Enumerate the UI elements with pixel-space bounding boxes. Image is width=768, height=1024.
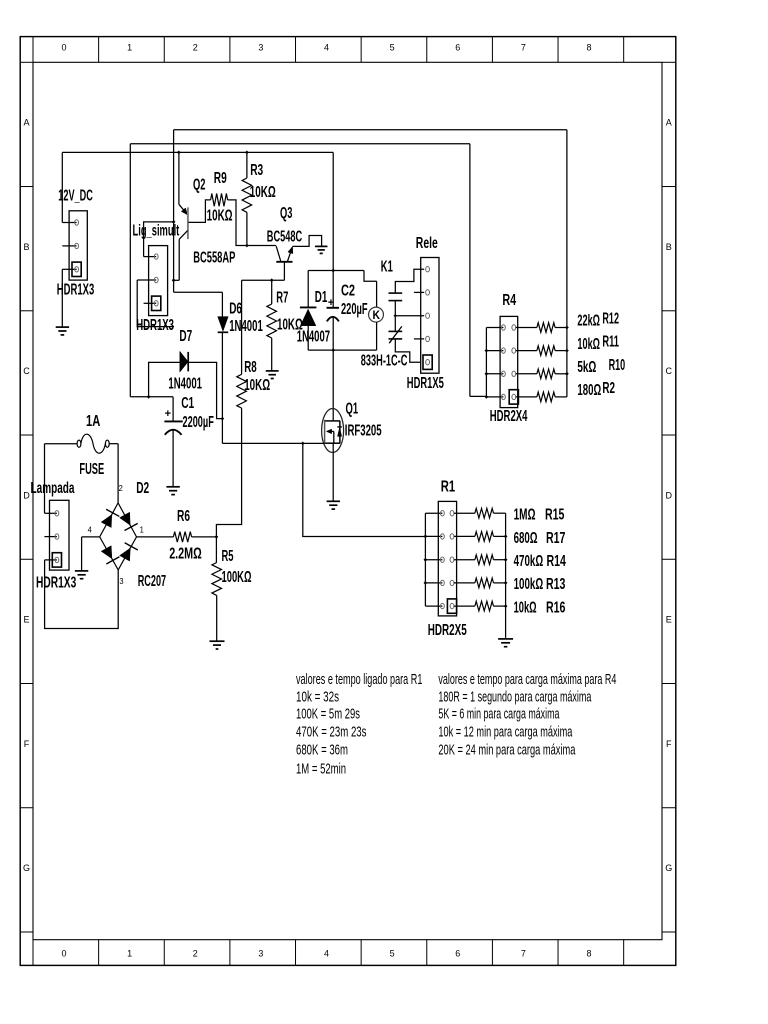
svg-text:833H-1C-C: 833H-1C-C	[361, 352, 408, 369]
svg-text:470kΩ: 470kΩ	[514, 553, 544, 570]
bridge diode bottom-right	[120, 548, 131, 561]
junction net-A / Lig pin1	[172, 220, 176, 224]
junction R4 left bus	[485, 395, 489, 399]
Q2 emitter diagonal	[179, 204, 188, 215]
Q1 substrate arrow	[326, 429, 331, 434]
resistor R13 zigzag	[475, 578, 494, 588]
D1 cathode lead	[307, 271, 309, 308]
svg-text:7: 7	[521, 949, 526, 959]
svg-text:Lig_simult: Lig_simult	[133, 223, 180, 240]
Q1 channel right bar	[339, 421, 341, 443]
svg-text:1MΩ: 1MΩ	[514, 507, 536, 524]
Q1 source lead to ground	[332, 443, 334, 501]
wire down to bridge pin2	[117, 444, 119, 503]
svg-text:BC558AP: BC558AP	[193, 249, 235, 266]
pin2 stub	[414, 291, 424, 293]
pin left row1 of HDR2X4	[502, 325, 506, 330]
svg-text:1: 1	[127, 43, 132, 53]
R7 zigzag	[267, 304, 277, 338]
svg-text:RC207: RC207	[138, 573, 166, 590]
pin 1 of Lig_simult	[154, 254, 158, 259]
svg-text:B: B	[23, 242, 29, 252]
resistor R15 to right bus	[494, 512, 506, 514]
svg-text:HDR2X4: HDR2X4	[490, 408, 528, 425]
pin stub Lamp-3	[45, 559, 57, 561]
page border frame inner	[33, 62, 662, 939]
junction R3 / base wire	[245, 244, 249, 248]
svg-text:HDR1X3: HDR1X3	[136, 317, 174, 334]
Q1 gate plate	[324, 420, 326, 443]
R1 row3 left stub	[425, 559, 442, 561]
svg-text:R11: R11	[602, 334, 619, 351]
contact1 lower bar	[389, 300, 403, 302]
junction R6/R5/R8 node	[215, 535, 219, 539]
svg-text:8: 8	[587, 949, 592, 959]
R1 row4 lead to resistor	[454, 582, 475, 584]
junction D7 / D6 cathode line	[221, 417, 225, 421]
resistor R2 zigzag	[537, 392, 555, 402]
C2 bottom curved plate	[327, 317, 339, 322]
Q3 emitter arrow (NPN)	[288, 247, 293, 254]
contact1 upper bar	[389, 292, 403, 294]
pin 3 of HDR1X5	[426, 313, 430, 318]
K1 coil top lead	[376, 281, 378, 307]
resistor R10 to right bus	[555, 373, 567, 375]
svg-text:A: A	[666, 118, 672, 128]
svg-text:5: 5	[390, 43, 395, 53]
svg-text:10kΩ: 10kΩ	[514, 599, 537, 616]
R1 left bus	[424, 513, 426, 606]
pin left row2 of HDR2X4	[502, 348, 506, 353]
R4 left bus	[485, 328, 487, 397]
svg-text:BC548C: BC548C	[267, 229, 302, 246]
ground at Q3 emitter	[315, 245, 328, 247]
wire net-A top bus y=129.7	[174, 129, 567, 131]
svg-text:R15: R15	[545, 507, 565, 524]
pin left row2 of HDR2X5	[441, 534, 445, 539]
R4 row4 lead to resistor	[516, 396, 537, 398]
svg-text:B: B	[666, 242, 672, 252]
contact mid wire to pin3	[395, 315, 424, 317]
R9 zigzag	[211, 194, 228, 207]
D7 cathode wire jog to D6 line	[188, 362, 222, 418]
junction R1 left bus	[424, 558, 428, 562]
ground below R7	[266, 370, 279, 372]
resistor R17 zigzag	[475, 532, 494, 542]
bridge diamond	[100, 503, 137, 570]
R8 zigzag	[237, 374, 247, 408]
resistor R14 to right bus	[494, 559, 506, 561]
R4 row3 lead to resistor	[516, 373, 537, 375]
Q2 base wire to R9	[188, 200, 210, 223]
R4 row3 left stub	[486, 373, 503, 375]
pin 3 square of Lampada	[52, 553, 61, 567]
Q2 base bar	[187, 207, 189, 239]
wire +12V to J1 pin1	[61, 152, 63, 222]
wire fuse-left down to Lampada pin1	[44, 444, 46, 514]
svg-text:C: C	[23, 366, 30, 376]
svg-text:R12: R12	[602, 310, 619, 327]
fuse wave	[81, 434, 106, 453]
svg-text:D2: D2	[136, 480, 149, 497]
pin right row1 of HDR2X4	[512, 325, 516, 330]
svg-text:7: 7	[521, 43, 526, 53]
junction R1 left bus	[424, 581, 428, 585]
R1 row1 left stub	[425, 512, 442, 514]
wire net +12V bus y=152.4	[62, 151, 333, 153]
R5 top lead	[215, 537, 217, 563]
resistor R15 zigzag	[475, 508, 494, 518]
svg-text:180R = 1 segundo para carga má: 180R = 1 segundo para carga máxima	[438, 689, 592, 705]
svg-text:0: 0	[61, 43, 66, 53]
pin stub J1-1	[62, 222, 76, 224]
box top edge	[308, 270, 364, 272]
svg-text:680K = 36m: 680K = 36m	[296, 742, 348, 758]
svg-text:D: D	[666, 490, 673, 500]
R3 top lead	[246, 152, 248, 178]
wire net-B second bus y=143.8	[130, 143, 470, 145]
pin stub Lamp-2	[44, 536, 57, 538]
svg-text:R13: R13	[546, 576, 566, 593]
bridge diode top-left (points to +)	[101, 515, 112, 528]
svg-text:R9: R9	[214, 170, 227, 187]
svg-text:K1: K1	[381, 259, 393, 276]
Q2 emitter riser	[178, 152, 180, 204]
contact2 actuation slash	[389, 326, 402, 343]
svg-text:D: D	[23, 490, 30, 500]
svg-text:R3: R3	[250, 162, 263, 179]
junction R4 left bus	[485, 349, 489, 353]
wire Lig pin2 down (overlaps label)	[137, 280, 174, 327]
pin 4 of HDR1X5	[426, 336, 430, 341]
Q1 substrate to source	[333, 431, 335, 443]
resistor R12 zigzag	[537, 323, 555, 333]
pin left row3 of HDR2X5	[441, 557, 445, 562]
pin right row4 of HDR2X4	[512, 394, 516, 399]
wire gate net y=443.4	[222, 442, 324, 444]
svg-text:R6: R6	[177, 508, 190, 525]
svg-text:100KΩ: 100KΩ	[222, 569, 252, 586]
svg-text:220µF: 220µF	[341, 301, 368, 318]
svg-text:F: F	[24, 739, 30, 749]
wire net-B into R4 left bus	[470, 395, 487, 397]
R6 zigzag	[173, 532, 191, 542]
resistor R14 zigzag	[475, 555, 494, 565]
D7 cathode bar	[187, 352, 189, 372]
R4 row1 left stub	[486, 327, 503, 329]
pin stub Lig-2	[137, 279, 156, 281]
connector 12V_DC HDR1X3	[69, 211, 87, 280]
junction contact mid	[394, 314, 398, 318]
wire fuse right	[109, 443, 118, 445]
svg-text:HDR2X5: HDR2X5	[428, 622, 467, 639]
pin stub Lamp-1	[45, 512, 57, 514]
C1 top plate	[164, 420, 182, 422]
ruler column dividers bottom band	[32, 940, 34, 966]
wire net-A right drop = R4 right bus	[566, 130, 568, 397]
svg-text:12V_DC: 12V_DC	[58, 188, 93, 205]
svg-text:A: A	[23, 118, 29, 128]
Q1 source bar	[325, 442, 341, 444]
svg-text:4: 4	[324, 949, 329, 959]
pin right row2 of HDR2X5	[450, 534, 454, 539]
pin 2 of Lig_simult	[154, 277, 158, 282]
svg-text:FUSE: FUSE	[79, 461, 104, 478]
svg-text:1N4007: 1N4007	[297, 328, 330, 345]
svg-text:5K = 6 min para carga máxima: 5K = 6 min para carga máxima	[438, 707, 560, 723]
Q2 collector diagonal	[179, 231, 187, 240]
Q3 base bar (horizontal)	[276, 261, 292, 263]
junction +12V / R3	[245, 151, 249, 155]
bridge left lead	[82, 536, 100, 538]
Q1 body diode bar	[337, 426, 342, 428]
R1 row5 lead to resistor	[454, 605, 475, 607]
junction R1 left bus	[424, 535, 428, 539]
D6 cathode lead down to gate wire	[221, 332, 223, 443]
svg-text:3: 3	[119, 576, 123, 586]
svg-text:D1: D1	[315, 289, 328, 306]
svg-text:2: 2	[119, 483, 123, 493]
svg-text:R8: R8	[244, 359, 257, 376]
svg-text:Q1: Q1	[346, 401, 359, 418]
svg-text:100kΩ: 100kΩ	[514, 576, 544, 593]
R5 zigzag	[212, 563, 222, 596]
ground below R5	[210, 640, 225, 642]
contact2 upper bar	[389, 330, 403, 332]
C1 top lead	[172, 397, 174, 421]
pin stub J1-3	[62, 268, 76, 270]
svg-text:F: F	[666, 739, 672, 749]
resistor R10 zigzag	[537, 369, 555, 379]
svg-text:10KΩ: 10KΩ	[207, 208, 233, 225]
C1 bottom lead to ground	[172, 430, 174, 487]
connector Rele HDR1X5	[421, 258, 439, 374]
svg-text:680Ω: 680Ω	[514, 530, 538, 547]
D7 anode wire from net-B	[149, 362, 180, 396]
svg-text:C2: C2	[341, 283, 355, 300]
pin right row3 of HDR2X5	[450, 557, 454, 562]
svg-text:Lampada: Lampada	[31, 480, 75, 497]
svg-text:5: 5	[390, 949, 395, 959]
Q3 collector diagonal	[276, 246, 281, 261]
svg-text:1: 1	[127, 949, 132, 959]
ground below R1 bank	[498, 638, 513, 640]
svg-text:R5: R5	[222, 548, 234, 565]
D1 triangle	[300, 309, 316, 326]
pin right row2 of HDR2X4	[512, 348, 516, 353]
wire net-B right drop to R4 left bus	[469, 144, 471, 397]
svg-text:2200µF: 2200µF	[183, 414, 214, 431]
pin right row4 square of HDR2X4	[509, 390, 518, 404]
resistor R16 to right bus	[494, 605, 506, 607]
svg-text:G: G	[23, 863, 30, 873]
svg-text:8: 8	[587, 43, 592, 53]
pin 5 square of HDR1X5	[423, 355, 432, 369]
ruler column dividers top band	[32, 37, 34, 63]
Q3 base drop	[283, 262, 285, 281]
junction R7 top	[270, 278, 274, 282]
pin right row5 square of HDR2X5	[447, 599, 456, 613]
svg-text:6: 6	[455, 949, 460, 959]
wire net-B to C1 top	[130, 396, 173, 398]
C2 bottom lead	[332, 317, 334, 350]
contact common wire to pin1	[395, 269, 424, 293]
svg-text:D6: D6	[229, 300, 242, 317]
svg-text:valores e tempo para carga máx: valores e tempo para carga máxima para R…	[438, 672, 616, 688]
svg-text:Q2: Q2	[193, 176, 206, 193]
svg-text:C: C	[666, 366, 673, 376]
Q1 body diode triangle	[338, 428, 342, 437]
contact bottom wire to pin5	[395, 339, 421, 362]
svg-text:10kΩ: 10kΩ	[577, 336, 600, 353]
svg-text:20K = 24 min para carga máxima: 20K = 24 min para carga máxima	[438, 742, 576, 758]
svg-text:10KΩ: 10KΩ	[250, 184, 276, 201]
R4 row2 lead to resistor	[516, 350, 537, 352]
wire Lig pin1 up to net-A	[144, 222, 174, 257]
K1 coil bottom lead	[376, 322, 378, 350]
svg-text:R16: R16	[546, 599, 566, 616]
bridge right lead to R6	[137, 536, 174, 538]
svg-text:4: 4	[324, 43, 329, 53]
pin left row5 of HDR2X5	[441, 603, 445, 608]
wire J1-3 to ground	[61, 269, 63, 326]
R6 to node	[192, 536, 217, 538]
pin 2 of 12V_DC	[75, 243, 79, 248]
D1 anode lead	[307, 326, 309, 350]
svg-text:100K = 5m 29s: 100K = 5m 29s	[296, 707, 360, 723]
svg-text:R14: R14	[547, 553, 567, 570]
box bottom edge	[308, 349, 376, 351]
svg-text:HDR1X5: HDR1X5	[407, 375, 444, 392]
R1 row3 lead to resistor	[454, 559, 475, 561]
svg-text:470K = 23m 23s: 470K = 23m 23s	[296, 725, 367, 741]
svg-text:180Ω: 180Ω	[577, 382, 601, 399]
D1 cathode bar	[300, 306, 317, 308]
junction R4 left bus	[485, 372, 489, 376]
R7 top lead	[271, 280, 273, 304]
svg-text:2: 2	[193, 949, 198, 959]
junction R4 right bus	[565, 349, 569, 353]
wire gate net down to R1 bank	[303, 443, 426, 536]
svg-text:R17: R17	[546, 530, 565, 547]
svg-text:IRF3205: IRF3205	[345, 422, 382, 439]
connector Lig_simult HDR1X3	[149, 246, 168, 316]
svg-text:6: 6	[455, 43, 460, 53]
svg-text:+: +	[165, 408, 171, 420]
Q2 collector jog to net-A drop	[174, 279, 180, 281]
pin 5 of HDR1X5	[426, 360, 430, 365]
pin 3 square of Lig_simult	[152, 296, 161, 310]
junction R1 right bus	[504, 581, 508, 585]
svg-text:3: 3	[258, 43, 263, 53]
wire net-A to D6 anode	[174, 291, 223, 293]
ground below C1	[166, 486, 179, 488]
pin right row1 of HDR2X5	[450, 511, 454, 516]
svg-text:2.2MΩ: 2.2MΩ	[169, 546, 202, 563]
R1 row5 left stub	[425, 605, 442, 607]
junction C2 bottom / Q1 drain	[331, 348, 335, 352]
ground below 12V_DC	[56, 326, 69, 328]
R3 zigzag	[242, 178, 252, 212]
svg-text:R4: R4	[502, 292, 516, 309]
Q2 collector drop	[178, 239, 180, 280]
wire to fuse left	[45, 443, 78, 445]
D6 anode lead	[221, 292, 223, 316]
wire +12V drop to relay group top	[332, 152, 334, 270]
junction +12V / Q2 emitter	[177, 151, 181, 155]
C1 bottom curved plate	[165, 430, 182, 435]
junction R1 right bus	[504, 604, 508, 608]
svg-text:3: 3	[258, 949, 263, 959]
svg-text:10k = 12 min para carga máxima: 10k = 12 min para carga máxima	[438, 725, 573, 741]
R4 bank HDR2X4	[500, 316, 518, 407]
junction +12V / C2 top	[331, 269, 335, 273]
R1 row4 left stub	[425, 582, 442, 584]
R9 to Q3 wire	[228, 200, 277, 246]
Q1 drain bar	[325, 420, 340, 422]
svg-text:R10: R10	[609, 357, 626, 374]
pin right row4 of HDR2X5	[450, 580, 454, 585]
junction R1 right bus	[504, 558, 508, 562]
R1 row2 lead to resistor	[454, 535, 475, 537]
svg-text:E: E	[666, 615, 672, 625]
ground below Q1	[327, 500, 340, 502]
svg-text:10KΩ: 10KΩ	[244, 377, 270, 394]
pin left row4 of HDR2X4	[502, 394, 506, 399]
svg-text:D7: D7	[179, 328, 192, 345]
wire Lampada pin3 loop to bridge pin3	[45, 560, 119, 629]
R1 row2 left stub	[425, 535, 442, 537]
pin 3 square of 12V_DC	[72, 262, 81, 276]
R8 top lead	[241, 280, 243, 374]
svg-text:1N4001: 1N4001	[168, 375, 202, 392]
contact2 lower bar	[389, 338, 403, 340]
C2 top lead	[332, 271, 334, 308]
junction net-B / D7 branch	[147, 395, 151, 399]
svg-text:C1: C1	[181, 395, 194, 412]
pin stub J1-2	[62, 245, 76, 247]
svg-text:4: 4	[88, 525, 92, 535]
R5 bottom lead	[216, 595, 218, 640]
Q1 drain lead	[332, 350, 334, 421]
R7 bottom lead	[271, 338, 273, 370]
R1 row1 lead to resistor	[454, 512, 475, 514]
R4 row1 lead to resistor	[516, 327, 537, 329]
resistor R2 to right bus	[555, 396, 567, 398]
svg-text:R1: R1	[441, 479, 456, 496]
resistor R13 to right bus	[494, 582, 506, 584]
svg-text:5kΩ: 5kΩ	[577, 359, 596, 376]
C2 top plate	[327, 307, 340, 309]
D6 triangle	[218, 317, 229, 332]
Q3 emitter wire to ground	[292, 236, 321, 247]
wire net-A left drop x=173.6	[173, 130, 175, 293]
pin right row5 of HDR2X5	[450, 603, 454, 608]
junction Q2 collector / net-A drop	[172, 278, 176, 282]
R8 bottom lead down to R6/R5 node	[216, 408, 241, 537]
pin 1 of 12V_DC	[75, 220, 79, 225]
bridge diode bottom-left	[101, 546, 112, 559]
Q1 substrate line	[327, 430, 334, 432]
svg-text:1A: 1A	[86, 413, 100, 430]
box top notch to coil	[364, 271, 377, 282]
junction gate net / R1 branch	[301, 442, 305, 446]
svg-text:22kΩ: 22kΩ	[577, 313, 600, 330]
pin left row4 of HDR2X5	[441, 580, 445, 585]
svg-text:R7: R7	[276, 290, 288, 307]
svg-text:1M = 52min: 1M = 52min	[296, 762, 346, 778]
Q2 emitter arrow (PNP)	[181, 208, 187, 215]
